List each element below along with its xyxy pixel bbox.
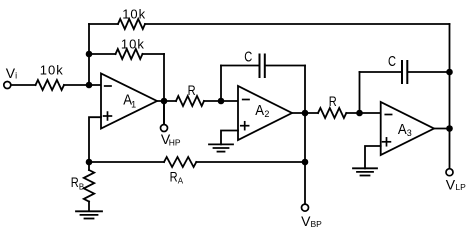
node C3 left junction	[356, 110, 363, 117]
svg-text:R: R	[329, 93, 337, 109]
terminal Vi	[4, 65, 17, 89]
svg-text:A: A	[398, 122, 407, 138]
ground RB	[76, 211, 102, 218]
svg-text:C: C	[388, 54, 396, 70]
svg-text:R: R	[170, 168, 178, 184]
svg-text:C: C	[244, 50, 252, 66]
terminal VBP	[301, 204, 322, 229]
svg-text:3: 3	[407, 128, 412, 138]
resistor R first integrator	[176, 82, 204, 106]
wire mid row left lead	[89, 53, 116, 55]
op-amp A3	[381, 102, 434, 155]
svg-text:2: 2	[264, 109, 269, 119]
node C2 left junction	[218, 98, 225, 105]
node mid feedback junction	[86, 51, 93, 58]
ground A2	[209, 144, 233, 151]
svg-text:A: A	[255, 103, 264, 119]
node A2 output junction	[302, 110, 309, 117]
svg-text:B: B	[79, 183, 84, 192]
capacitor C3	[360, 54, 450, 83]
wire A1 noninverting input	[89, 117, 101, 163]
wire Vi to R input	[12, 84, 36, 86]
resistor R second integrator	[318, 93, 346, 118]
svg-text:1: 1	[131, 99, 136, 109]
terminal VLP	[446, 169, 466, 193]
wire right column top feedback to VLP	[449, 24, 451, 169]
wire C2 left column	[220, 66, 222, 102]
wire A1 output column	[163, 54, 165, 125]
resistor 10k mid feedback	[116, 36, 145, 59]
wire top row left lead	[89, 23, 118, 25]
svg-text:LP: LP	[455, 182, 466, 192]
node A3 output junction	[446, 125, 453, 132]
node C3 right junction	[446, 69, 453, 76]
node RB junction	[86, 159, 93, 166]
resistor RA	[89, 157, 305, 185]
wire A1 output	[157, 100, 176, 102]
wire A3 noninverting input to ground	[365, 146, 381, 168]
resistor 10k top feedback	[118, 7, 146, 30]
svg-text:R: R	[188, 82, 196, 98]
wire C3 left column	[359, 72, 361, 113]
wire A2 noninverting input to ground	[221, 131, 238, 145]
node RA to VBP junction	[302, 159, 309, 166]
svg-text:R: R	[71, 174, 79, 190]
svg-text:V: V	[446, 176, 456, 192]
wire A2 output	[292, 112, 318, 114]
wire top row right lead	[145, 23, 450, 25]
svg-text:BP: BP	[311, 219, 323, 229]
svg-text:HP: HP	[169, 137, 181, 147]
wire input node row	[64, 84, 101, 86]
op-amp A1	[101, 74, 157, 129]
wire A3 output	[434, 128, 450, 130]
resistor 10k input	[36, 63, 65, 90]
node input junction	[86, 82, 93, 89]
svg-text:i: i	[15, 71, 17, 81]
svg-text:10k: 10k	[122, 7, 146, 22]
ground A3	[353, 168, 377, 175]
wire A2 output column	[304, 66, 306, 205]
wire VHP stub	[163, 101, 165, 125]
wire R to A3 inverting input	[346, 112, 380, 114]
capacitor C2	[221, 50, 305, 78]
svg-text:10k: 10k	[40, 63, 64, 78]
wire R to A2 inverting input	[204, 100, 238, 102]
wire mid row right lead	[143, 53, 165, 55]
terminal VHP	[161, 125, 181, 148]
node A1 output junction	[161, 98, 168, 105]
svg-text:A: A	[178, 176, 184, 185]
op-amp A2	[238, 86, 292, 140]
svg-text:10k: 10k	[121, 36, 145, 51]
wire left feedback column	[88, 24, 90, 85]
resistor RB	[71, 162, 95, 211]
